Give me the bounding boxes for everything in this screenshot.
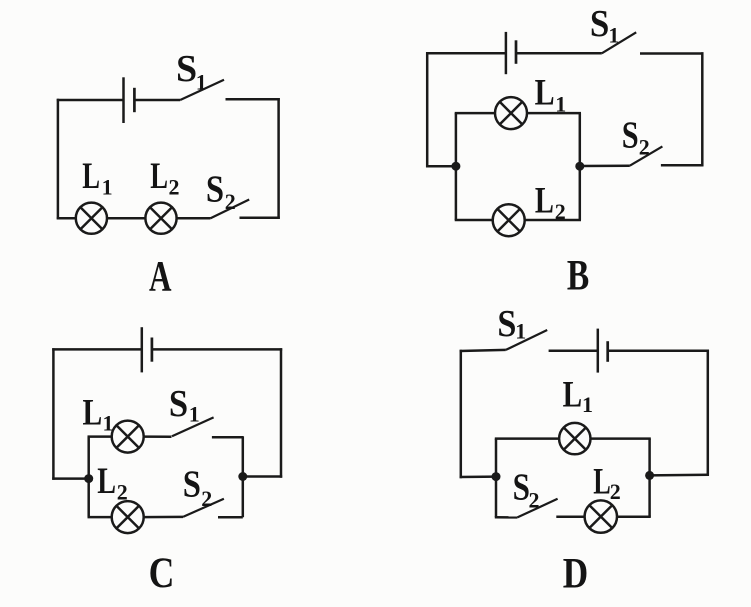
label circuit C	[149, 549, 175, 597]
battery (D): short plate	[606, 341, 609, 362]
switch S1 (B): blade	[602, 32, 636, 53]
wire: A bottom between L1 and L2	[107, 217, 145, 220]
wire: A top-middle from battery to switch S1 pivot	[134, 99, 180, 102]
label circuit B	[567, 253, 589, 300]
svg-text:S: S	[513, 465, 530, 508]
switch S1 (A): blade	[180, 80, 224, 100]
svg-text:2: 2	[555, 199, 566, 224]
svg-text:2: 2	[610, 479, 621, 504]
svg-text:L: L	[150, 155, 168, 196]
svg-text:S: S	[169, 382, 188, 424]
wire: D bottom branch from vertical to S2 pivot	[495, 516, 518, 519]
svg-text:1: 1	[189, 401, 200, 426]
svg-text:L: L	[535, 181, 554, 221]
wire: C from right junction to outer loop	[243, 475, 282, 478]
wire: D bottom branch right of L2	[617, 515, 651, 518]
switch S1 (D): blade	[506, 330, 547, 350]
wire: C lower branch from vertical to L2	[88, 516, 113, 519]
label L2 (B)	[535, 181, 566, 224]
switch S2 (A): blade	[211, 200, 250, 219]
label S2 (A)	[206, 167, 236, 214]
svg-text:2: 2	[169, 174, 180, 199]
svg-text:1: 1	[515, 318, 526, 343]
wire: B middle from right junction to S2 pivot	[580, 164, 630, 167]
wire: B top-left from corner to battery	[426, 52, 506, 55]
wire: B middle-left from outer loop to junction	[426, 165, 456, 168]
svg-text:D: D	[563, 549, 588, 597]
lamp L1 (C)	[112, 421, 144, 453]
svg-text:1: 1	[582, 392, 593, 417]
wire: C right vertical	[280, 348, 283, 478]
battery (D): long plate	[597, 329, 600, 373]
label S2 (B)	[622, 114, 650, 159]
label circuit D	[563, 549, 588, 597]
lamp L1 (D)	[559, 423, 590, 454]
battery (C): short plate	[151, 338, 154, 362]
svg-text:2: 2	[117, 480, 128, 505]
wire: B bottom branch left of L2	[455, 219, 493, 222]
label circuit A	[149, 254, 172, 301]
battery (C): long plate	[141, 327, 144, 372]
battery (B): long plate	[505, 32, 508, 74]
svg-text:S: S	[622, 114, 639, 156]
svg-text:L: L	[97, 461, 116, 502]
wire: B right vertical	[701, 52, 704, 166]
junction node (B left)	[451, 162, 460, 171]
svg-text:A: A	[149, 254, 172, 301]
wire: C contact vertical joining junction	[242, 436, 245, 517]
wire: B middle-right from S2 contact to corner	[661, 164, 704, 167]
wire: B top branch left of L1	[455, 112, 495, 115]
switch S2 (C): blade	[183, 499, 224, 517]
svg-text:1: 1	[196, 70, 207, 95]
wire: A top-left from corner to battery	[57, 99, 124, 102]
wire: D inner right vertical	[648, 439, 651, 517]
wire: C inner left vertical	[87, 437, 90, 517]
wire: D top-left from corner to S1 pivot	[460, 350, 506, 351]
label L1 (D)	[563, 374, 593, 417]
svg-text:L: L	[82, 155, 100, 196]
label L1 (B)	[535, 72, 567, 116]
wire: B left vertical	[426, 52, 429, 167]
svg-text:L: L	[535, 72, 555, 113]
lamp L2 (B)	[493, 204, 525, 236]
junction node (D right)	[645, 471, 654, 480]
junction node (D left)	[492, 472, 501, 481]
battery (B): short plate	[515, 40, 518, 64]
label S1 (D)	[497, 302, 526, 344]
wire: C upper branch from L1 to S1 pivot	[143, 435, 171, 438]
label L2 (A)	[150, 155, 179, 200]
junction node (C right)	[238, 472, 247, 481]
wire: D inner left vertical	[495, 439, 498, 518]
label L2 (D)	[593, 460, 621, 504]
svg-text:1: 1	[608, 22, 619, 47]
battery (A): short plate	[133, 88, 136, 112]
svg-text:L: L	[563, 374, 582, 415]
wire: A bottom-left from corner to L1	[57, 217, 76, 220]
wire: A bottom between L2 and S2 pivot	[177, 217, 211, 220]
wire: D S2 contact to L2	[556, 515, 584, 518]
battery (A): long plate	[122, 77, 125, 123]
wire: C S2 contact horizontal	[218, 516, 243, 519]
label S1 (B)	[590, 2, 620, 48]
svg-text:1: 1	[555, 91, 566, 116]
wire: D from S1 contact to battery	[549, 350, 598, 353]
svg-text:C: C	[149, 549, 175, 597]
junction node (C left)	[84, 474, 93, 483]
svg-text:S: S	[590, 2, 609, 45]
wire: B top-right from S1 contact to corner	[640, 52, 704, 55]
wire: D left vertical	[460, 350, 463, 478]
wire: D middle-left from outer loop to junction	[460, 475, 496, 478]
wire: C left vertical	[52, 348, 55, 480]
wire: C middle-left from outer loop to junction	[52, 477, 88, 480]
wire: A left vertical	[57, 99, 60, 220]
lamp L2 (A)	[145, 203, 176, 234]
svg-text:B: B	[567, 253, 589, 300]
lamp L2 (C)	[112, 501, 144, 533]
wire: C S1 contact horizontal	[212, 436, 243, 439]
svg-text:1: 1	[103, 411, 114, 436]
wire: B top-middle from battery to switch S1 pivot	[516, 52, 602, 55]
svg-text:S: S	[497, 302, 516, 344]
svg-text:2: 2	[529, 487, 540, 512]
label L1 (A)	[82, 155, 112, 200]
switch S2 (B): blade	[630, 146, 663, 165]
svg-text:L: L	[593, 460, 611, 502]
label S2 (D)	[513, 465, 540, 512]
lamp L1 (A)	[76, 203, 107, 234]
wire: D top-right from battery to corner	[608, 350, 709, 353]
svg-text:S: S	[206, 167, 224, 210]
label S1 (A)	[176, 48, 207, 94]
wire: D middle-right from corner to junction	[650, 474, 709, 477]
label S1 (C)	[169, 382, 200, 426]
wire: C upper branch from vertical to L1	[88, 435, 113, 438]
wire: B inner left vertical	[455, 113, 458, 220]
wire: D top branch left of L1	[495, 437, 559, 440]
wire: B bottom branch right of L2	[525, 219, 581, 222]
svg-text:S: S	[176, 48, 197, 90]
wire: B inner right vertical	[579, 113, 582, 220]
label L1 (C)	[83, 392, 114, 435]
lamp L1 (B)	[495, 97, 527, 129]
switch S2 (D): blade	[517, 499, 557, 518]
wire: A bottom-right from corner to S2 contact	[240, 216, 280, 219]
switch S1 (C): blade	[172, 417, 214, 436]
wire: D right vertical	[707, 350, 710, 476]
svg-text:L: L	[83, 392, 103, 433]
wire: C lower branch from L2 to S2 pivot	[143, 516, 183, 519]
svg-text:1: 1	[102, 174, 113, 199]
wire: C top-right from battery to corner	[152, 348, 282, 351]
label L2 (C)	[97, 461, 127, 504]
svg-text:2: 2	[201, 486, 212, 511]
wire: A right vertical	[277, 98, 280, 219]
wire: D top branch right of L1	[591, 437, 651, 440]
svg-text:S: S	[183, 462, 201, 505]
wire: C top-left from corner to battery	[52, 348, 142, 351]
junction node (B right)	[575, 162, 584, 171]
wire: A top-right from S1 contact to corner	[226, 98, 280, 101]
lamp L2 (D)	[585, 500, 617, 532]
svg-text:2: 2	[225, 189, 236, 214]
wire: B top branch right of L1	[527, 112, 581, 115]
svg-text:2: 2	[639, 135, 650, 160]
label S2 (C)	[183, 462, 212, 510]
